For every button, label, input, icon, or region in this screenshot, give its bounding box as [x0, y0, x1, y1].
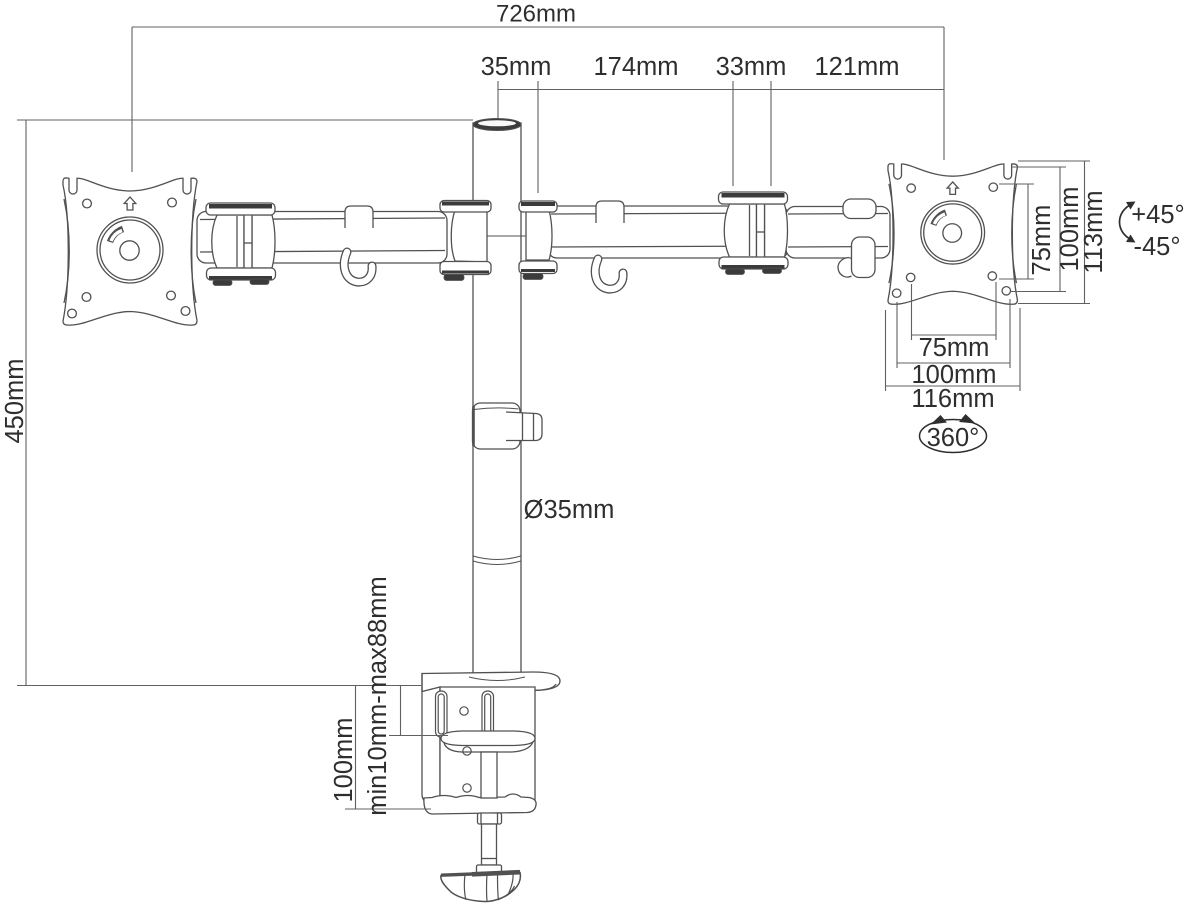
clamp knob handle	[441, 872, 521, 901]
rotation arc +-45	[1120, 205, 1131, 239]
svg-text:450mm: 450mm	[1, 358, 29, 443]
desk clamp bracket	[422, 672, 560, 814]
svg-text:113mm: 113mm	[1080, 190, 1108, 273]
arm joint B (right)	[719, 192, 789, 269]
svg-text:726mm: 726mm	[496, 1, 576, 28]
svg-text:+45°: +45°	[1131, 201, 1184, 229]
cable clip 3	[838, 199, 876, 278]
cable clip 2	[596, 201, 624, 223]
pole collar with knob	[473, 403, 543, 449]
pole seam	[473, 556, 521, 560]
dim min10mm-max88mm clamp opening	[400, 686, 402, 736]
pole top cap	[473, 119, 521, 131]
clamp mid pad	[441, 731, 535, 875]
dim 113mm vertical right	[1084, 161, 1086, 304]
VESA plate left	[63, 178, 197, 325]
svg-text:360°: 360°	[927, 424, 980, 452]
svg-text:Ø35mm: Ø35mm	[524, 496, 615, 524]
svg-text:121mm: 121mm	[814, 53, 899, 81]
dim 100mm bottom right plate	[896, 302, 898, 368]
dim 100mm vertical right	[1059, 167, 1061, 292]
dim 100mm clamp height	[355, 686, 357, 810]
svg-text:75mm: 75mm	[919, 334, 990, 362]
svg-text:75mm: 75mm	[1028, 205, 1056, 276]
svg-text:min10mm-max88mm: min10mm-max88mm	[364, 576, 392, 815]
VESA plate right	[888, 164, 1017, 305]
dim 726mm	[132, 26, 944, 28]
arm joint A (left)	[206, 203, 276, 280]
pole column	[473, 123, 521, 675]
dim 75mm vertical right	[1027, 184, 1029, 279]
svg-text:174mm: 174mm	[593, 53, 678, 81]
dim 450mm	[25, 120, 27, 685]
cable clip 1	[345, 206, 373, 228]
clamp feet	[444, 275, 464, 281]
centre pole clamp	[440, 201, 557, 275]
wire	[197, 206, 890, 263]
svg-text:35mm: 35mm	[481, 53, 552, 81]
dim row 35/174/33/121	[498, 89, 944, 91]
dim 116mm bottom right plate	[885, 310, 887, 391]
clamp slots	[436, 691, 494, 792]
svg-text:116mm: 116mm	[911, 385, 994, 413]
svg-text:100mm: 100mm	[330, 717, 358, 802]
dim 75mm bottom right plate	[911, 284, 913, 340]
svg-text:-45°: -45°	[1133, 233, 1180, 261]
svg-text:33mm: 33mm	[716, 53, 787, 81]
360 rotation symbol	[920, 420, 987, 453]
